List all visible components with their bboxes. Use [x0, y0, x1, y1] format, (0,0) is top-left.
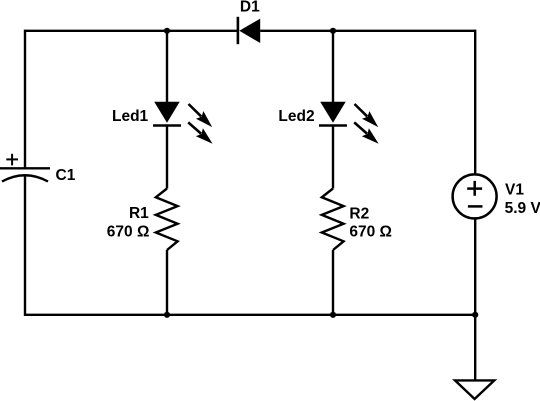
wire branch1 lower	[166, 250, 168, 316]
voltage source V1	[453, 174, 497, 218]
wire top-left segment (top rail left of D1)	[25, 30, 238, 32]
wire branch2 upper	[332, 31, 334, 103]
ground	[455, 380, 494, 399]
svg-text:R1: R1	[129, 205, 149, 222]
LED Led2	[319, 102, 379, 144]
wire right rail lower	[474, 219, 476, 316]
node bottom junction branch1	[164, 312, 170, 318]
wire branch1 upper	[166, 31, 168, 103]
resistor R2	[322, 189, 344, 251]
svg-text:C1: C1	[56, 167, 76, 184]
svg-text:V1: V1	[505, 182, 524, 199]
wire branch1 middle	[166, 126, 168, 189]
svg-text:670 Ω: 670 Ω	[349, 223, 392, 240]
wire right rail upper	[474, 30, 476, 174]
svg-text:R2: R2	[349, 205, 369, 222]
svg-text:D1: D1	[240, 0, 260, 15]
svg-text:Led2: Led2	[278, 108, 314, 125]
wire ground stub	[474, 315, 476, 381]
diode D1	[238, 17, 260, 44]
LED Led1	[153, 102, 213, 144]
svg-text:5.9 V: 5.9 V	[505, 200, 540, 217]
wire left rail upper	[24, 30, 26, 169]
wire branch2 lower	[332, 250, 334, 316]
node top junction branch1	[164, 28, 170, 34]
node bottom junction branch2	[330, 312, 336, 318]
capacitor C1	[0, 154, 50, 182]
wire top-right segment (top rail right of D1)	[260, 30, 475, 32]
wire branch2 middle	[332, 126, 334, 189]
svg-text:670 Ω: 670 Ω	[107, 223, 150, 240]
node bottom junction right rail	[472, 312, 478, 318]
wire left rail lower	[24, 176, 26, 316]
wire bottom rail	[25, 314, 475, 316]
resistor R1	[156, 189, 178, 251]
svg-text:Led1: Led1	[112, 108, 149, 125]
node top junction branch2	[330, 28, 336, 34]
